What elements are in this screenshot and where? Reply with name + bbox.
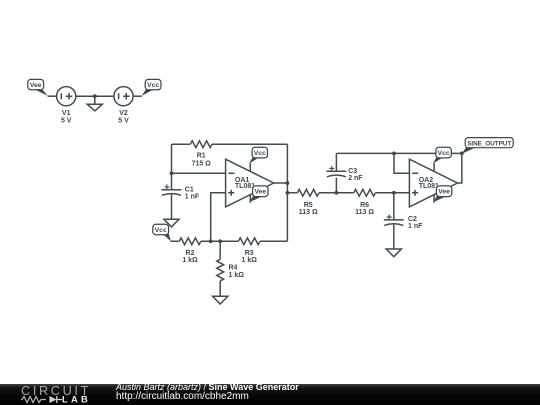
wire C3 branch (335, 153, 337, 192)
voltage source V2 (114, 87, 133, 106)
svg-text:Vee: Vee (438, 189, 450, 196)
wire V2 to Vcc-flag (133, 95, 142, 97)
svg-text:R3: R3 (245, 250, 254, 257)
node dot (R4 rail) (218, 239, 222, 243)
net flag Vee (power rail) (28, 79, 48, 96)
svg-text:Vcc: Vcc (254, 150, 266, 157)
svg-text:Vcc: Vcc (147, 82, 159, 89)
net flag Vcc (R2 rail) (153, 224, 171, 241)
ground (C1) (164, 219, 179, 227)
svg-text:113 Ω: 113 Ω (299, 209, 318, 216)
wire bottom (R2/R3 rail) (170, 240, 287, 242)
svg-text:113 Ω: 113 Ω (355, 209, 374, 216)
svg-text:5 V: 5 V (118, 117, 129, 124)
op-amp OA1 (226, 159, 274, 207)
svg-text:5 V: 5 V (61, 117, 72, 124)
svg-text:1 nF: 1 nF (408, 223, 423, 230)
footer logo and credits (0, 384, 540, 405)
wire OA2 output up (458, 153, 462, 183)
ground (C2) (386, 249, 401, 257)
svg-text:SINE_OUTPUT: SINE_OUTPUT (467, 140, 512, 147)
node dot (C2 branch) (392, 191, 396, 195)
svg-text:http://circuitlab.com/cbhe2mm: http://circuitlab.com/cbhe2mm (116, 391, 249, 402)
voltage source V1 (57, 87, 76, 106)
node dot (plus input rail) (209, 239, 213, 243)
svg-text:R5: R5 (304, 202, 313, 209)
op-amp OA2 (409, 159, 457, 207)
node dot (OA1 output) (286, 181, 290, 185)
svg-text:1 kΩ: 1 kΩ (242, 257, 258, 264)
wire Vee-flag to V1 (48, 95, 57, 97)
wire R5 row (287, 192, 409, 194)
resistor R4 (217, 259, 224, 281)
wire R4 branch (219, 241, 221, 296)
wire OA1 output (274, 182, 288, 184)
footer bar (0, 384, 540, 405)
wire to OA1 inverting input (172, 172, 226, 174)
node dot (R5 branch) (286, 191, 290, 195)
svg-text:Vcc: Vcc (438, 150, 450, 157)
svg-text:R2: R2 (186, 250, 195, 257)
resistor R3 (238, 238, 260, 245)
svg-text:R1: R1 (197, 152, 206, 159)
resistor R1 (190, 141, 212, 148)
svg-text:1 kΩ: 1 kΩ (229, 272, 245, 279)
node dot (C1 / inverting) (170, 171, 174, 175)
capacitor C2 (384, 215, 404, 226)
svg-text:Vcc: Vcc (155, 227, 167, 234)
wire top feedback (y=144) (172, 143, 288, 145)
wire right vertical bus (286, 144, 288, 241)
svg-text:Vee: Vee (30, 82, 42, 89)
svg-text:C3: C3 (348, 168, 357, 175)
resistor R6 (354, 189, 376, 196)
capacitor C1 (162, 184, 182, 195)
wire top right (y=153.4) (336, 152, 461, 154)
svg-text:2 nF: 2 nF (348, 175, 363, 182)
net flag Vee (OA2) (433, 186, 452, 202)
wire OA2 inverting input (394, 153, 409, 173)
svg-text:R6: R6 (360, 202, 369, 209)
wire to OA1 non-inverting input (211, 193, 226, 242)
wire left vertical to C1 (171, 144, 173, 190)
svg-text:C1: C1 (185, 186, 194, 193)
svg-text:715 Ω: 715 Ω (192, 161, 212, 168)
wire C1 to ground (171, 195, 173, 220)
ground (power rail) (87, 96, 102, 111)
wire V1 to V2 (76, 95, 114, 97)
node dot (output node) (460, 152, 464, 156)
svg-text:Vee: Vee (254, 189, 266, 196)
svg-text:V2: V2 (119, 110, 128, 117)
net flag Vcc (power rail) (142, 79, 161, 96)
resistor R5 (297, 189, 319, 196)
resistor R2 (179, 238, 201, 245)
svg-text:1 kΩ: 1 kΩ (182, 257, 198, 264)
svg-text:V1: V1 (62, 110, 71, 117)
wire C2 branch (393, 193, 395, 249)
net flag Vcc (OA2) (433, 147, 452, 163)
svg-text:C2: C2 (408, 216, 417, 223)
net flag Vcc (OA1) (249, 147, 268, 163)
ground (R4) (213, 296, 228, 304)
svg-text:R4: R4 (229, 265, 238, 272)
node dot (power ground) (93, 94, 97, 98)
svg-text:LAB: LAB (62, 394, 91, 404)
capacitor C3 (326, 166, 346, 177)
net flag SINE_OUTPUT (462, 138, 514, 154)
node dot (OA2 minus branch) (392, 152, 396, 156)
net flag Vee (OA1) (249, 186, 268, 202)
svg-text:1 nF: 1 nF (185, 194, 200, 201)
node dot (C3 branch) (335, 191, 339, 195)
